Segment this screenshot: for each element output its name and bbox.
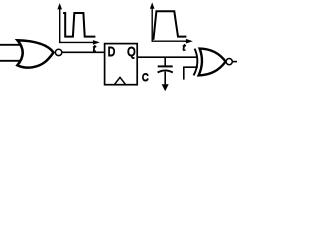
capacitor C1 bottom plate (curved) bbox=[158, 70, 173, 72]
stub wire to XNOR lower input bbox=[184, 67, 198, 79]
capacitor C1 top plate bbox=[158, 65, 173, 67]
svg-text:t: t bbox=[93, 43, 96, 54]
wire: U3 output bbox=[232, 61, 237, 63]
waveform 1 horizontal axis arrowhead bbox=[93, 40, 100, 45]
waveform 2 vertical axis arrowhead bbox=[150, 2, 155, 8]
waveform 2 horizontal axis arrowhead bbox=[186, 39, 193, 44]
waveform 1 vertical axis arrowhead bbox=[57, 3, 62, 9]
svg-text:C: C bbox=[142, 72, 149, 84]
svg-text:t: t bbox=[183, 42, 186, 53]
waveform diagram 1: vertical axis bbox=[59, 9, 61, 43]
svg-text:Q: Q bbox=[127, 44, 135, 59]
U2 clock edge triangle bbox=[115, 77, 126, 84]
waveform 1 pulse trace bbox=[63, 13, 95, 37]
waveform diagram 2: vertical axis bbox=[151, 8, 153, 41]
capacitor C1 bottom lead bbox=[164, 72, 166, 85]
waveform 1 horizontal axis bbox=[59, 41, 94, 43]
XNOR gate U3 extra input arc bbox=[194, 49, 198, 76]
bubble U3 output bbox=[226, 59, 232, 65]
waveform 2 horizontal axis bbox=[152, 40, 187, 42]
NOR gate U1 bbox=[17, 40, 53, 67]
wire: Q output to XNOR input bbox=[137, 56, 198, 58]
input wire B bbox=[0, 60, 21, 62]
input wire A bbox=[0, 44, 22, 46]
capacitor C1 top lead bbox=[164, 57, 166, 65]
wire: U1 output to D input bbox=[62, 51, 105, 53]
D flip-flop U2 bbox=[105, 44, 138, 85]
svg-text:D: D bbox=[108, 44, 115, 59]
XNOR gate U3 body bbox=[199, 49, 226, 76]
ground arrow below C1 bbox=[162, 84, 169, 91]
waveform 2 pulse trace bbox=[153, 11, 186, 40]
bubble U1 output bbox=[55, 49, 61, 55]
